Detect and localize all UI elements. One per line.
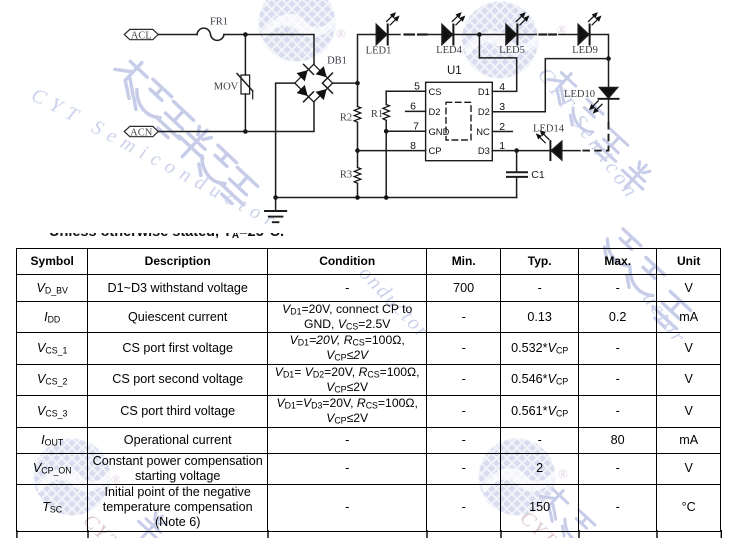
wire D2 route to pin 3 [492,59,608,112]
node ACL input tag [124,29,158,41]
node junction bridge plus [355,81,360,86]
wire dashed LED1-LED4 [405,33,427,35]
node junction D1 return [477,32,482,37]
capacitor C1 [507,151,545,198]
wire pin 6 stub floating [406,110,426,112]
LED LED5 [499,10,531,56]
node junction D3/C1 [514,148,519,153]
wire R1 node down to ground rail [385,131,387,197]
wire D3 node to pin 1 [492,150,516,152]
wire node up to LED string [358,35,377,84]
bridge rectifier DB1 [295,56,347,102]
node junction LED9/D2 [606,56,611,61]
node junction CP divider [355,148,360,153]
wire FR1 to corner, down to bridge top [224,35,314,65]
wire MOV to ACN rail [244,94,246,132]
wire pin 2 NC stub [492,131,512,133]
node junction ACL/MOV [243,32,248,37]
spec table [16,248,721,532]
wire LED9 to corner down [590,35,609,59]
resistor R2 [340,83,361,151]
wire into LED9 [559,34,578,36]
wire ground rail [276,197,517,199]
wire pin 4 route to LED junction [479,35,516,92]
LED LED14 [533,124,565,161]
wire CS pin to R1 [386,90,425,92]
wire LED14 to D3 node [517,150,551,152]
node junction R1/GND pin [384,129,389,134]
node junction ground rail left [273,195,278,200]
wire ACN rail to bridge bottom [158,102,314,131]
fuse FR1 [197,17,228,41]
op-amp U1 [426,65,493,161]
wire junction down to MOV [244,35,246,76]
wire GND pin stub [386,130,425,132]
wire bridge minus to ground rail [276,83,295,197]
wire LED5 out [518,34,537,36]
LED LED1 [366,10,402,56]
varistor MOV [214,74,253,99]
ground [265,198,286,223]
clipped condition line above table [49,233,369,238]
pin labels U1 left [429,86,491,156]
pin numbers [410,81,505,153]
resistor R3 [340,151,361,198]
wire LED9 node down to LED10 [608,59,610,88]
wire LED1 to dashes [388,34,400,36]
node junction MOV/ACN [243,129,248,134]
wire dashed LED5-LED9 [540,33,557,35]
wire ACL to FR1 [158,34,197,36]
wire LED4 to LED5 [454,34,506,36]
wire CP line to pin 8 [358,150,426,152]
wire solid into LED14 [562,150,580,152]
LED LED10 [564,88,618,116]
wire LED10 cathode down then dashed to LED14 line [608,99,610,122]
resistor R1 [371,91,390,131]
LED LED9 [572,10,603,56]
node junction R3 ground [355,195,360,200]
schematic SVG [0,0,734,246]
LED LED4 [436,10,467,56]
node ACN input tag [124,126,158,138]
node junction ground rail R1 [384,195,389,200]
wire bridge plus to node [333,82,358,84]
